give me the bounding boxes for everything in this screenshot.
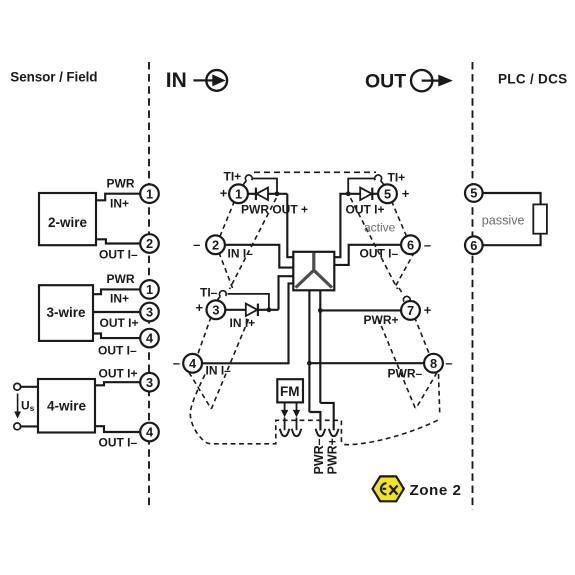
svg-text:5: 5 <box>470 186 477 201</box>
svg-text:PWR+: PWR+ <box>364 313 399 327</box>
svg-text:TI–: TI– <box>200 286 218 300</box>
svg-text:2: 2 <box>146 236 153 251</box>
svg-text:3-wire: 3-wire <box>46 305 86 320</box>
svg-text:FM: FM <box>280 384 300 399</box>
svg-text:–: – <box>173 356 180 371</box>
svg-text:OUT I+: OUT I+ <box>346 203 385 217</box>
svg-text:PWR OUT +: PWR OUT + <box>241 203 308 217</box>
svg-text:OUT I–: OUT I– <box>360 247 399 261</box>
svg-text:4: 4 <box>189 356 197 371</box>
svg-text:8: 8 <box>430 356 437 371</box>
svg-text:OUT I–: OUT I– <box>99 436 138 450</box>
svg-text:–: – <box>193 237 200 252</box>
svg-text:+: + <box>196 300 204 315</box>
svg-text:PWR–: PWR– <box>312 438 326 474</box>
svg-text:2: 2 <box>212 237 219 252</box>
svg-text:1: 1 <box>235 186 242 201</box>
svg-text:3: 3 <box>146 375 153 390</box>
svg-text:+: + <box>402 186 410 201</box>
svg-text:OUT I–: OUT I– <box>99 248 138 262</box>
svg-text:–: – <box>424 237 431 252</box>
svg-text:OUT I+: OUT I+ <box>99 367 138 381</box>
svg-text:Sensor / Field: Sensor / Field <box>10 70 97 85</box>
svg-text:IN+: IN+ <box>110 197 129 211</box>
svg-text:passive: passive <box>482 213 525 227</box>
svg-text:active: active <box>364 221 396 235</box>
svg-text:3: 3 <box>146 305 153 320</box>
svg-text:5: 5 <box>384 186 391 201</box>
svg-text:3: 3 <box>212 302 219 317</box>
svg-text:6: 6 <box>407 237 414 252</box>
svg-text:IN I–: IN I– <box>228 247 254 261</box>
svg-text:6: 6 <box>470 238 477 253</box>
svg-text:Zone 2: Zone 2 <box>410 482 462 499</box>
svg-text:PWR–: PWR– <box>388 367 423 381</box>
svg-text:OUT I+: OUT I+ <box>100 316 139 330</box>
svg-text:U: U <box>21 399 30 413</box>
svg-text:IN I–: IN I– <box>206 364 232 378</box>
svg-text:+: + <box>220 186 228 201</box>
svg-text:IN+: IN+ <box>110 292 129 306</box>
svg-text:TI+: TI+ <box>224 169 242 183</box>
svg-text:2-wire: 2-wire <box>48 215 88 230</box>
svg-text:PWR: PWR <box>107 177 135 191</box>
svg-text:4-wire: 4-wire <box>47 399 87 414</box>
svg-text:7: 7 <box>407 303 414 318</box>
svg-text:4: 4 <box>146 331 154 346</box>
svg-text:–: – <box>445 356 452 371</box>
svg-text:OUT I–: OUT I– <box>98 344 137 358</box>
svg-text:IN: IN <box>166 69 187 92</box>
svg-text:IN I+: IN I+ <box>230 316 256 330</box>
svg-text:PWR: PWR <box>107 272 135 286</box>
svg-text:1: 1 <box>146 282 153 297</box>
svg-text:TI+: TI+ <box>388 171 406 185</box>
svg-text:4: 4 <box>146 425 154 440</box>
svg-text:+: + <box>424 303 432 318</box>
svg-text:s: s <box>30 403 35 413</box>
svg-text:PLC / DCS: PLC / DCS <box>498 72 567 87</box>
svg-text:1: 1 <box>146 186 153 201</box>
svg-text:OUT: OUT <box>365 71 406 93</box>
svg-text:PWR+: PWR+ <box>325 438 339 474</box>
